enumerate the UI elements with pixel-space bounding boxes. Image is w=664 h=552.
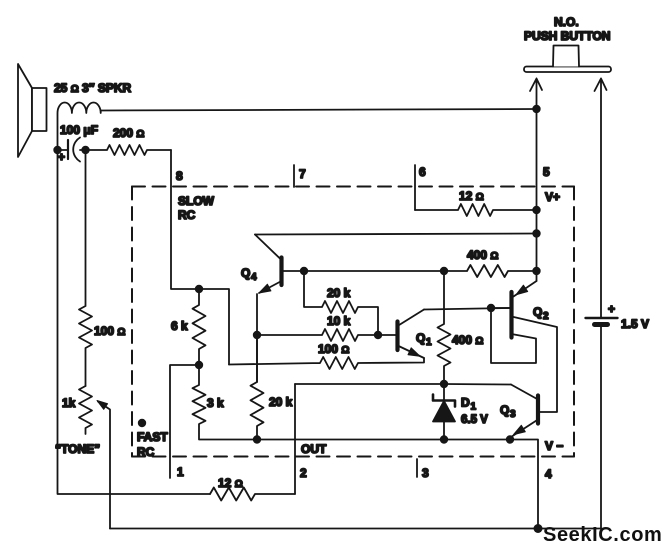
svg-text:1: 1	[471, 402, 477, 413]
svg-text:20 k: 20 k	[269, 395, 293, 409]
node pin6 resistor to V+ rail	[532, 206, 540, 214]
wire V+ vertical pin 5	[536, 109, 538, 281]
svg-text:Q: Q	[500, 403, 509, 417]
transistor Q2	[491, 281, 557, 412]
svg-text:8: 8	[176, 169, 183, 183]
node D1 top	[440, 380, 448, 388]
svg-text:1k: 1k	[62, 396, 76, 410]
pin 6 stub	[414, 165, 416, 210]
node Q4 collector rail junction	[532, 229, 540, 237]
pin 3 stub	[416, 459, 418, 477]
svg-text:1: 1	[426, 337, 432, 348]
svg-text:5: 5	[543, 165, 550, 179]
node bottom rail pin4	[534, 524, 543, 533]
svg-text:Q: Q	[416, 331, 425, 345]
wire left rail down	[58, 150, 211, 494]
svg-text:12 Ω: 12 Ω	[459, 189, 484, 203]
node 400 ohm right V+	[532, 267, 540, 275]
svg-text:1: 1	[177, 465, 184, 479]
capacitor 100uF	[57, 138, 86, 162]
FAST RC terminal dot	[138, 419, 146, 427]
svg-text:Q: Q	[533, 305, 542, 319]
svg-text:3: 3	[510, 409, 516, 420]
battery 1.5V	[586, 318, 618, 529]
svg-text:6.5 V: 6.5 V	[461, 414, 488, 426]
node speaker/cap junction	[53, 146, 61, 154]
wire V- rail inside IC	[257, 440, 538, 529]
wire pin2 vertical	[294, 384, 296, 494]
node Q1 base junction	[374, 331, 382, 339]
node D1 bottom	[440, 435, 448, 443]
svg-text:RC: RC	[137, 445, 155, 459]
wire Q4 collector to V+ rail	[255, 234, 537, 235]
wire bottom rail	[110, 528, 601, 530]
zener diode D1 6.5V	[433, 384, 455, 440]
speaker SPKR symbol	[18, 64, 47, 157]
resistor 10 k	[257, 329, 396, 341]
wire top rail to push button	[101, 109, 537, 111]
resistor 400 ohm horizontal	[444, 265, 537, 277]
svg-text:4: 4	[545, 467, 552, 481]
svg-text:400 Ω: 400 Ω	[452, 333, 483, 347]
node cap right junction	[81, 146, 89, 154]
wire Q1 collector to Q2 base	[424, 308, 510, 310]
potentiometer 1k TONE	[79, 386, 110, 529]
svg-text:3: 3	[422, 466, 429, 480]
svg-text:7: 7	[299, 167, 306, 181]
svg-text:100 Ω: 100 Ω	[318, 342, 349, 356]
wire Q4 base line	[284, 270, 445, 272]
node 10k left junction	[253, 331, 261, 339]
wire pin8 lead into IC	[171, 150, 229, 365]
wire Q4 emitter chain down	[256, 294, 258, 382]
transistor Q1	[398, 310, 425, 359]
resistor 20 k vertical	[251, 335, 264, 440]
svg-text:400 Ω: 400 Ω	[467, 248, 498, 262]
push button N.O.	[524, 46, 611, 318]
resistor 6 k	[193, 289, 206, 365]
svg-text:4: 4	[251, 272, 257, 283]
resistor 200 ohm	[86, 145, 172, 155]
resistor 12 ohm top	[415, 204, 537, 216]
svg-text:20 k: 20 k	[327, 286, 351, 300]
pin 7 stub	[293, 165, 295, 187]
svg-text:25 Ω 3′′ SPKR: 25 Ω 3′′ SPKR	[54, 81, 131, 95]
svg-text:D: D	[461, 396, 470, 410]
resistor 12 ohm bottom	[210, 488, 295, 501]
IC dashed box	[132, 187, 574, 457]
svg-text:1.5 V: 1.5 V	[621, 317, 649, 331]
svg-text:FAST: FAST	[137, 430, 168, 444]
node 20k bottom on V- rail	[253, 435, 261, 443]
svg-text:SLOW: SLOW	[178, 194, 215, 208]
node 6k bottom	[195, 361, 203, 369]
node 6k top	[195, 285, 203, 293]
svg-text:V+: V+	[545, 190, 560, 204]
resistor 20 k upper	[304, 271, 378, 335]
svg-text:+: +	[608, 302, 615, 316]
svg-text:RC: RC	[178, 208, 196, 222]
transistor Q3	[510, 385, 538, 440]
svg-text:200 Ω: 200 Ω	[113, 126, 144, 140]
svg-text:2: 2	[300, 466, 307, 480]
svg-text:N.O.: N.O.	[554, 15, 579, 29]
inductor voice-coil	[58, 103, 101, 151]
svg-text:100 μF: 100 μF	[60, 123, 98, 137]
svg-text:SeekIC.com: SeekIC.com	[543, 524, 662, 546]
svg-text:PUSH BUTTON: PUSH BUTTON	[524, 29, 610, 43]
svg-text:10 k: 10 k	[327, 314, 351, 328]
svg-text:“TONE”: “TONE”	[55, 442, 100, 456]
svg-text:2: 2	[543, 311, 549, 322]
svg-text:12 Ω: 12 Ω	[218, 476, 243, 490]
node 400 ohm left	[440, 267, 448, 275]
node top rail / push button	[532, 105, 540, 113]
node Q2 base loop junction	[487, 304, 495, 312]
wire pin1 lead	[170, 365, 199, 478]
resistor 100 ohm left	[79, 150, 92, 386]
resistor 100 ohm middle	[229, 357, 424, 369]
svg-text:6: 6	[419, 165, 426, 179]
svg-text:V −: V −	[545, 439, 563, 453]
node base-line to 20k tap	[300, 267, 308, 275]
svg-text:6 k: 6 k	[171, 319, 188, 333]
node Q3 emitter on V- rail	[506, 435, 514, 443]
svg-text:100 Ω: 100 Ω	[94, 324, 125, 338]
resistor 3 k	[193, 365, 258, 440]
svg-text:OUT: OUT	[301, 442, 327, 456]
resistor 400 ohm vertical	[438, 271, 451, 384]
transistor Q4	[255, 235, 282, 294]
wire OUT node line	[295, 383, 511, 386]
svg-text:3 k: 3 k	[207, 396, 224, 410]
svg-text:Q: Q	[241, 266, 250, 280]
